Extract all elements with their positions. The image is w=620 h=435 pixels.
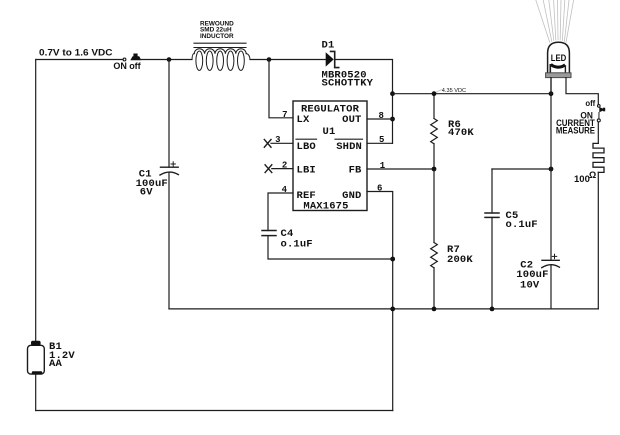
overline LBO	[296, 138, 317, 140]
svg-text:0.7V to 1.6 VDC: 0.7V to 1.6 VDC	[39, 48, 113, 58]
wire: SHDN pin 5	[367, 142, 393, 144]
wire: diode to top-right corner, down to OUT/SHDN column	[335, 60, 393, 144]
LED lamp	[546, 42, 571, 77]
wire pin 2	[272, 168, 293, 170]
wire: C2 bottom	[550, 266, 552, 309]
wire: left vertical from top rail down to battery +	[35, 60, 37, 342]
svg-text:INDUCTOR: INDUCTOR	[200, 33, 234, 40]
wire: C5 lower	[491, 217, 493, 309]
svg-text:o.1uF: o.1uF	[506, 219, 538, 231]
node: junction R6 top	[432, 91, 437, 96]
switch S2 measure	[597, 105, 605, 122]
wire: LED anode leg over to measure branch	[566, 78, 598, 105]
svg-text:FB: FB	[349, 165, 362, 177]
label C2	[516, 259, 548, 291]
inductor L1 core lines	[194, 42, 246, 44]
label B1	[49, 341, 75, 370]
svg-text:6V: 6V	[140, 186, 153, 198]
wire: inductor to diode	[250, 59, 326, 61]
label: inductor note	[200, 20, 234, 40]
wire: 4.35 VDC rail	[393, 93, 552, 95]
svg-text:off: off	[585, 99, 595, 108]
switch S1 ON/off	[123, 54, 141, 61]
wire: C5 upper	[491, 169, 493, 213]
no-connect X pin 2	[265, 165, 272, 173]
svg-text:LX: LX	[297, 114, 310, 126]
svg-text:Ω: Ω	[589, 170, 596, 180]
wire: LX pin 7 drop	[269, 60, 293, 118]
svg-text:MEASURE: MEASURE	[556, 126, 595, 136]
no-connect X pin 3	[264, 140, 271, 148]
node: junction C5 top	[549, 167, 554, 172]
node: junction C4 return	[390, 257, 395, 262]
svg-text:4.35 VDC: 4.35 VDC	[442, 88, 466, 94]
wire: bottom return rail	[36, 410, 393, 412]
ground rail	[169, 308, 598, 310]
svg-text:o.1uF: o.1uF	[281, 238, 313, 250]
resistor 100 ohm (meander)	[593, 143, 604, 172]
node: rail junction R7	[432, 307, 437, 312]
overline SHDN	[335, 138, 363, 140]
svg-text:200K: 200K	[447, 254, 473, 266]
node: junction LED anode / 4.35 rail	[549, 91, 554, 96]
capacitor C1 branch	[168, 60, 170, 168]
C1 plus sign	[171, 162, 175, 166]
wire: C5 top link to output column	[492, 168, 551, 170]
wire: C4 bottom return to GND column	[268, 236, 393, 259]
diode D1 MBR0520	[326, 51, 339, 67]
wire: output column x551	[550, 78, 552, 261]
inductor L1 winding	[192, 49, 250, 71]
capacitor C4	[262, 230, 276, 232]
wire: C1 bottom to ground rail	[168, 173, 170, 309]
battery B1	[28, 341, 45, 375]
wire: 100 ohm to ground rail	[597, 172, 599, 309]
svg-text:off: off	[129, 61, 141, 71]
wire: top rail from battery corner to switch	[36, 59, 123, 61]
svg-text:4: 4	[282, 185, 288, 195]
resistor R6 470K	[431, 94, 438, 169]
node: rail junction GND column	[390, 307, 395, 312]
capacitor C1 plates	[161, 166, 179, 168]
wire: switch to 100ohm resistor	[597, 122, 599, 143]
capacitor C2 plates	[542, 259, 559, 261]
resistor R7 200K	[431, 169, 438, 309]
label ON CURRENT MEASURE	[556, 110, 595, 135]
label C1	[136, 168, 168, 198]
svg-text:MAX1675: MAX1675	[303, 201, 348, 213]
svg-text:SCHOTTKY: SCHOTTKY	[322, 78, 374, 90]
svg-text:LBO: LBO	[297, 141, 316, 153]
wire: OUT pin 8	[367, 118, 393, 120]
svg-text:U1: U1	[323, 126, 336, 138]
svg-text:D1: D1	[322, 40, 335, 52]
label: 4.35 VDC with leader	[435, 90, 442, 93]
wire pin 3	[271, 142, 293, 144]
svg-text:LBI: LBI	[297, 165, 316, 177]
svg-text:470K: 470K	[448, 127, 474, 139]
node: junction OUT pin 8	[390, 117, 395, 122]
wire: LED cathode leg to rail junction	[550, 78, 552, 94]
wire: battery negative to bottom rail	[35, 374, 37, 410]
wire: FB pin 1 to R6/R7 junction	[367, 168, 434, 170]
node: junction 4.35VDC rail	[390, 91, 395, 96]
svg-text:OUT: OUT	[342, 114, 361, 126]
capacitor C5	[485, 212, 499, 214]
node: junction FB/R6/R7	[432, 167, 437, 172]
svg-text:LED: LED	[551, 53, 567, 63]
svg-text:7: 7	[282, 110, 287, 120]
svg-text:100: 100	[574, 174, 590, 185]
svg-text:ON: ON	[113, 61, 127, 71]
svg-text:AA: AA	[49, 358, 62, 370]
node: rail junction C5	[490, 307, 495, 312]
node: junction switch/C1/inductor	[167, 57, 172, 62]
svg-text:SHDN: SHDN	[336, 141, 362, 153]
wire: REF pin 4 via C4	[268, 193, 293, 231]
wire: switch to inductor	[142, 59, 192, 61]
wire: GND pin 6 right and long drop	[367, 192, 393, 411]
op-amp-box regulator U1 MAX1675	[293, 101, 367, 211]
svg-text:10V: 10V	[520, 279, 540, 291]
LED light rays	[536, 0, 574, 43]
node: junction LX tap	[267, 57, 272, 62]
C2 plus sign	[552, 254, 556, 258]
pin numbers	[275, 110, 386, 195]
